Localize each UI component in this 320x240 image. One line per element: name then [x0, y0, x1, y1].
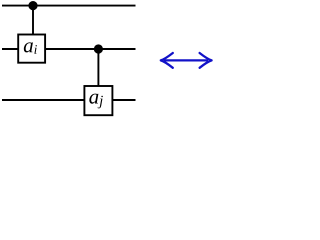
- wire control-link 2 (q1 dot to a_j box): [97, 49, 99, 86]
- blue double arrow shaft: [164, 59, 208, 61]
- control dot 2 (on q1): [94, 44, 103, 53]
- blue double arrow left head: [161, 53, 173, 68]
- wire q1 (middle qubit line): [2, 48, 136, 50]
- label a_i: [24, 42, 37, 53]
- wire q2 (bottom qubit line): [2, 99, 136, 101]
- label a_j: [89, 94, 103, 109]
- gate box a_i: [18, 35, 45, 63]
- wire control-link 1 (q0 dot to a_i box): [32, 6, 34, 35]
- gate box a_j: [84, 86, 112, 115]
- blue double arrow right head: [200, 53, 212, 68]
- wire q0 (top qubit line): [2, 5, 136, 7]
- control dot 1 (on q0): [28, 1, 37, 10]
